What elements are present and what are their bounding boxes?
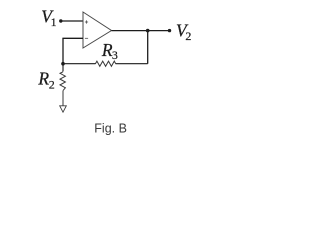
wire op-amp output to V2 [112, 30, 170, 32]
wire resistor R2 to arrow [62, 91, 64, 106]
open arrowhead (down) [60, 106, 67, 112]
svg-text:2: 2 [49, 78, 55, 92]
wire corner to op-amp - input [62, 37, 83, 39]
junction output node [146, 29, 150, 33]
wire output junction down [147, 31, 149, 64]
op-amp U1 triangle [83, 12, 112, 48]
op-amp + pin mark [85, 20, 88, 23]
svg-text:3: 3 [112, 48, 118, 62]
resistor R3 [95, 61, 115, 66]
svg-text:2: 2 [185, 29, 191, 43]
junction feedback node [61, 62, 65, 66]
wire node to resistor R2 [62, 64, 64, 72]
wire left segment of feedback [63, 63, 96, 65]
node V1 terminal dot [59, 19, 62, 22]
wire feedback node up to - input corner [62, 38, 64, 63]
svg-text:1: 1 [51, 15, 57, 29]
resistor R2 [60, 72, 65, 91]
svg-text:R: R [37, 69, 49, 89]
svg-text:Fig. B: Fig. B [94, 121, 127, 135]
op-amp - pin mark [85, 37, 88, 39]
wire right segment of feedback [116, 63, 148, 65]
wire V1 to op-amp + input [61, 20, 83, 22]
node V2 terminal dot [168, 29, 171, 32]
